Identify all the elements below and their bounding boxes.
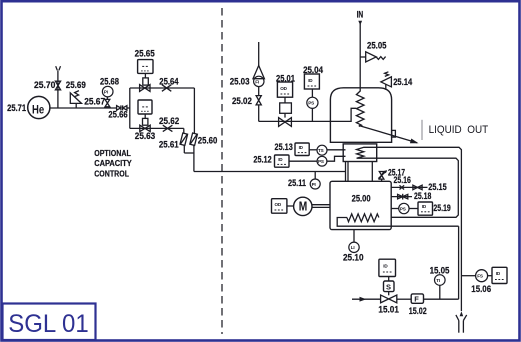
filter F 15.02 [411,294,423,304]
svg-text:25.68: 25.68 [100,76,119,86]
valve 25.67 [105,99,110,106]
svg-text:25.10: 25.10 [343,252,364,262]
svg-text:25.70: 25.70 [34,80,55,90]
svg-text:LI: LI [351,245,355,250]
optional capacity control loop: left riser [129,88,131,128]
liquid out leader tick [421,120,423,140]
solenoid S box 15.01 [384,281,395,295]
svg-text:25.05: 25.05 [367,41,387,51]
valve 25.62 [163,125,173,131]
flow switch FS 15.06 [461,270,492,282]
valve 25.02 [256,87,261,122]
wire heater return riser [458,226,460,299]
wire top branch [130,87,195,89]
pressure switch PS [307,89,318,121]
svg-text:25.00: 25.00 [352,194,371,204]
svg-text:SGL 01: SGL 01 [8,311,89,338]
svg-text:PS: PS [400,206,406,211]
pump box 25.00 [330,181,391,229]
svg-text:TS: TS [318,148,324,153]
wire purge line right [424,298,459,300]
svg-text:25.60: 25.60 [198,136,218,146]
section separator dashed line [221,8,223,334]
svg-text:He: He [32,103,44,117]
valve 25.18 [398,194,408,200]
svg-text:FS: FS [477,274,483,279]
transmitter box 25.04 [304,74,319,89]
inlet arrow [358,21,362,26]
level indicator LI 25.10 [349,230,359,253]
transmitter box 15.01 [379,259,396,281]
svg-text:25.04: 25.04 [303,65,324,75]
wire HX to pump suction double line [346,162,373,182]
wire makeup header [259,120,331,122]
valve 25.70 [55,81,60,90]
svg-text:25.18: 25.18 [414,191,431,201]
relief valve 25.69 [70,91,81,108]
svg-text:25.62: 25.62 [159,116,179,126]
temperature indicator TI 15.05 [435,275,446,300]
solenoid box 25.63 [138,100,152,125]
controller box OD motor [272,199,294,214]
svg-text:PS: PS [318,159,324,164]
heater element in pump [337,214,458,226]
rotameter 25.03 [253,42,264,87]
svg-text:25.02: 25.02 [232,96,252,106]
svg-text:F: F [414,295,419,304]
temperature switch TS [309,145,345,155]
solenoid box 25.65 [138,60,153,86]
svg-text:OPTIONAL: OPTIONAL [94,148,131,158]
relief valve 25.14 [381,72,392,90]
transmitter box 15.06 [492,267,507,283]
svg-text:25.13: 25.13 [275,142,293,152]
wire pump port line 25.18 [391,196,412,198]
purge line with arrow [352,297,381,302]
transmitter box 25.19 [418,202,433,215]
text optional capacity control [94,148,132,178]
control valve 25.17 [378,170,387,181]
svg-text:15.02: 15.02 [409,306,427,316]
svg-text:PS: PS [308,101,314,106]
svg-text:25.14: 25.14 [393,77,413,87]
svg-text:LIQUID OUT: LIQUID OUT [429,124,489,136]
svg-text:M: M [299,200,308,214]
nozzle on vessel right wall [392,130,396,137]
helium source circle 25.71 [28,96,50,118]
coupling check valves 25.66 [117,105,127,110]
wire main supply line [50,107,116,109]
liquid out arrow [359,126,419,144]
wire pump top port line 25.15 [391,186,427,188]
coil in vessel [356,91,364,126]
svg-text:25.12: 25.12 [253,155,271,165]
valve 25.01 body [279,118,292,127]
svg-text:OD: OD [280,86,287,91]
filter 25.61 [180,133,188,145]
svg-text:25.16: 25.16 [394,175,411,185]
filter 25.60 [190,133,198,145]
pressure switch PS 25.19 [391,203,418,213]
wire check valves to loop [127,107,130,109]
svg-text:TI: TI [436,278,440,283]
title block SGL 01 [3,304,96,341]
pressure switch PS 25.12 [289,156,346,166]
motor M [294,197,330,215]
loop right riser [193,88,195,134]
transmitter box 25.12 [275,155,290,167]
svg-text:15.05: 15.05 [430,266,450,276]
valve 25.15 [413,185,422,190]
heat exchanger box [343,144,377,162]
controller box 25.01 [277,82,292,118]
wire HX inlet from pump heater [377,158,459,217]
pressure gauge PI 25.11 [310,172,320,190]
wire helium supply to cold box [194,171,346,173]
wire inlet line [359,24,361,92]
svg-text:25.64: 25.64 [159,77,179,87]
svg-text:25.03: 25.03 [230,77,250,87]
valve 25.16 body [400,185,405,189]
vent to atmosphere [456,311,467,333]
svg-text:25.66: 25.66 [108,110,127,120]
svg-text:25.19: 25.19 [433,203,450,213]
svg-text:25.65: 25.65 [135,49,155,59]
svg-text:S: S [386,283,391,292]
wire purge line mid [397,298,411,300]
svg-text:CONTROL: CONTROL [94,168,129,178]
valve 25.65 body [140,85,150,92]
svg-text:25.69: 25.69 [66,80,86,90]
svg-text:IN: IN [357,9,364,19]
svg-text:FI: FI [255,79,259,84]
svg-text:PI: PI [312,182,316,187]
valve 25.64 [162,85,171,92]
wire filters bottom header [184,145,194,172]
wire HX outlet to vent header [377,147,462,311]
svg-text:25.11: 25.11 [288,178,306,188]
vessel phase separator [330,88,391,143]
svg-text:25.71: 25.71 [7,103,26,113]
vent symbol top left [56,66,61,70]
svg-text:PI: PI [104,90,108,95]
svg-text:25.01: 25.01 [276,74,295,84]
svg-text:25.67: 25.67 [84,97,105,107]
wire drop to filter 25.61 [183,128,185,133]
wire makeup inlet into vessel [330,108,356,121]
svg-text:25.61: 25.61 [159,140,179,150]
relief valve 25.05 [360,52,385,62]
valve 15.01 [381,295,397,303]
svg-text:15.06: 15.06 [471,284,491,294]
svg-text:25.63: 25.63 [135,131,155,141]
pressure gauge PI 25.68 [102,86,113,99]
svg-text:OD: OD [275,202,282,207]
wire vent branch [57,71,59,109]
svg-text:15.01: 15.01 [378,305,399,315]
wire bottom branch [130,127,184,129]
valve 25.63 body [140,125,150,131]
transmitter box 25.13 [295,143,309,156]
svg-text:CAPACITY: CAPACITY [94,158,132,168]
